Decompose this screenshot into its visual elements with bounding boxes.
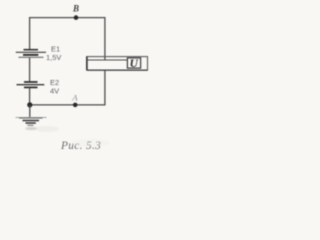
resistor load box outline — [87, 57, 148, 71]
wire left vertical lower — [29, 88, 31, 105]
ground bar 4 — [28, 124, 34, 126]
paper background — [0, 0, 162, 158]
U meter box — [127, 58, 140, 68]
battery E1 plate short thick — [23, 54, 38, 56]
battery E1 plate long — [16, 51, 46, 53]
resistor load box bottom dark — [87, 69, 148, 71]
battery E2 plate short bottom — [24, 86, 38, 88]
ground bar 1 — [19, 117, 43, 119]
svg-text:U: U — [130, 58, 139, 70]
battery E2 plate short top — [24, 81, 38, 83]
node A — [73, 103, 78, 108]
junction dot ground tap — [27, 102, 32, 107]
svg-text:4V: 4V — [50, 87, 59, 96]
node B — [74, 15, 79, 20]
ground bar 1 halo — [16, 116, 47, 118]
wire right vertical upper — [104, 17, 106, 57]
svg-text:А: А — [71, 93, 78, 103]
wire bottom horizontal — [30, 104, 106, 106]
scan smudges — [25, 126, 110, 147]
ground bar 3 — [26, 122, 36, 124]
wire left vertical upper — [29, 17, 31, 49]
battery E1 plate short top — [24, 49, 39, 51]
resistor load box inner top line — [87, 59, 128, 61]
wire ground stub — [29, 105, 31, 118]
svg-text:В: В — [72, 4, 79, 14]
battery E2 plate long — [17, 84, 45, 86]
svg-text:1,5V: 1,5V — [46, 53, 61, 62]
wire top horizontal B — [30, 17, 105, 19]
ground bar 2 — [23, 120, 40, 122]
wire right vertical lower — [104, 70, 106, 105]
resistor load box left edge dark — [86, 57, 88, 71]
battery E1 plate long faint — [19, 56, 44, 58]
wire stub into box — [104, 57, 106, 61]
wire left vertical middle — [29, 58, 31, 82]
